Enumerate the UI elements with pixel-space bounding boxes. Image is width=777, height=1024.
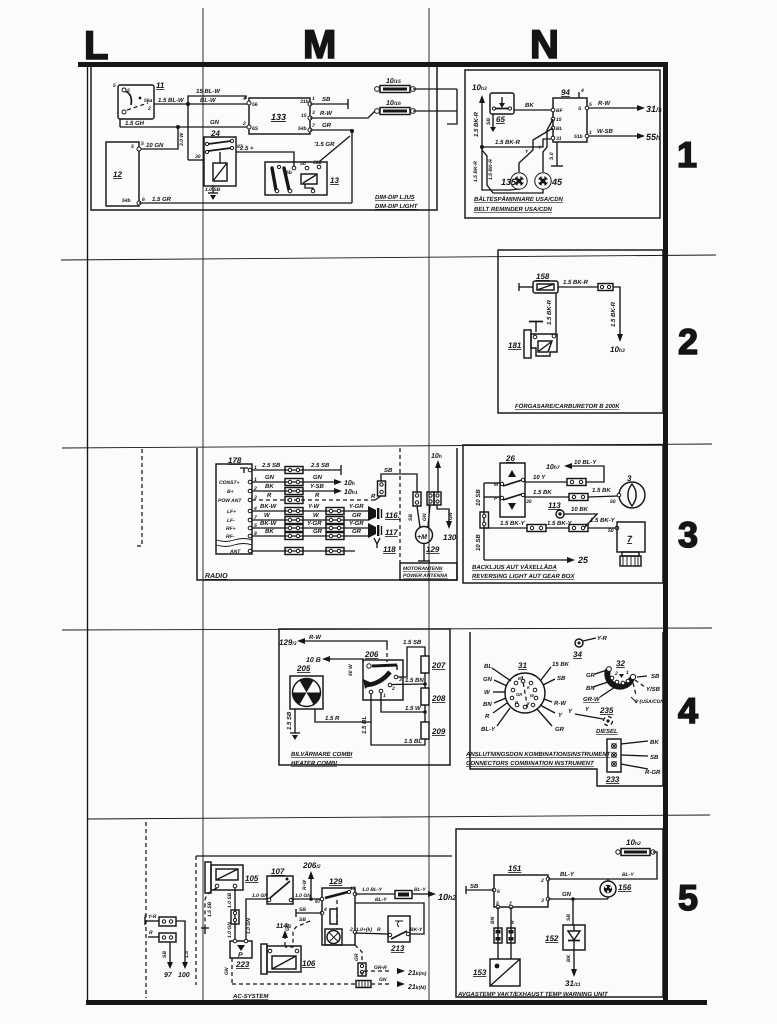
row 2.5 SB xyxy=(252,469,341,471)
svg-text:SB: SB xyxy=(299,907,306,913)
svg-text:7: 7 xyxy=(509,901,512,907)
svg-text:BL: BL xyxy=(556,126,563,132)
svg-text:15 BL-W: 15 BL-W xyxy=(196,88,221,95)
svg-text:SB: SB xyxy=(299,917,306,923)
svg-text:15: 15 xyxy=(350,886,356,892)
resistor 207 xyxy=(421,656,429,673)
svg-text:GR: GR xyxy=(352,528,362,535)
row LF- xyxy=(252,519,368,521)
svg-text:1.5 BK: 1.5 BK xyxy=(592,487,611,494)
wire down to 181 xyxy=(555,293,557,333)
svg-text:L: L xyxy=(84,24,108,68)
svg-text:GN: GN xyxy=(379,977,387,983)
svg-text:21k(M): 21k(M) xyxy=(407,984,426,991)
svg-text:105: 105 xyxy=(245,874,259,883)
svg-text:CONNECTORS COMBINATION INSTR: CONNECTORS COMBINATION INSTRUMENT xyxy=(466,760,595,767)
svg-text:R-W: R-W xyxy=(302,879,308,890)
svg-text:50 W: 50 W xyxy=(348,663,354,676)
arrow 206/2 xyxy=(310,879,312,899)
wire 1.0 BL-Y fuse 10h2 xyxy=(355,893,395,895)
svg-text:6: 6 xyxy=(142,197,145,203)
svg-text:AVGASTEMP VAKT/EXHAUST TEMP: AVGASTEMP VAKT/EXHAUST TEMP WARNING UNIT xyxy=(457,991,609,998)
svg-text:P (USA/CDN: P (USA/CDN xyxy=(635,699,664,705)
warning lamp 156 xyxy=(600,879,632,899)
svg-text:R: R xyxy=(377,927,381,933)
svg-text:SB: SB xyxy=(557,675,566,682)
svg-text:BILVÄRMARE COMBI: BILVÄRMARE COMBI xyxy=(291,750,353,758)
svg-text:B: B xyxy=(518,676,521,681)
relay 129 xyxy=(315,877,357,945)
svg-text:GR: GR xyxy=(555,726,565,733)
wire BL-Y down to 213 xyxy=(355,903,424,934)
svg-text:21k(m): 21k(m) xyxy=(407,970,427,977)
unit 13 xyxy=(265,160,339,195)
svg-text:1.5 BN: 1.5 BN xyxy=(405,677,424,684)
svg-text:SB: SB xyxy=(566,914,572,921)
svg-text:CONST+: CONST+ xyxy=(219,480,240,486)
svg-text:W-SB: W-SB xyxy=(597,128,613,135)
svg-text:31: 31 xyxy=(556,136,562,142)
row divider 2/3 xyxy=(62,444,712,448)
junction xyxy=(480,145,484,149)
svg-text:2.5 SB: 2.5 SB xyxy=(261,462,281,469)
relay 24 xyxy=(195,129,243,186)
wire into relay xyxy=(188,159,204,161)
row 15 BK to lamp xyxy=(525,496,569,498)
svg-text:SB: SB xyxy=(651,673,660,680)
svg-text:56a: 56a xyxy=(144,98,153,104)
svg-text:GN: GN xyxy=(422,513,428,521)
svg-text:N: N xyxy=(530,23,559,67)
svg-text:1.5 BK-R: 1.5 BK-R xyxy=(488,159,494,180)
section box REVERSING LIGHT xyxy=(463,445,663,583)
svg-text:SB: SB xyxy=(486,118,492,125)
SEC1R xyxy=(465,70,662,218)
svg-text:153: 153 xyxy=(473,968,487,977)
wire 107 to 129 xyxy=(291,898,322,900)
fan ground xyxy=(294,709,296,733)
32 left wires xyxy=(595,670,607,674)
svg-text:10 SB: 10 SB xyxy=(475,489,482,506)
svg-text:R-GR: R-GR xyxy=(645,769,661,776)
svg-text:1.5 BL: 1.5 BL xyxy=(404,738,422,745)
connector 233 xyxy=(605,739,621,784)
wire GR xyxy=(310,129,352,131)
svg-text:BL-Y: BL-Y xyxy=(414,887,426,893)
wire 107 to 223 xyxy=(246,899,269,941)
svg-text:13: 13 xyxy=(330,176,339,185)
svg-text:R: R xyxy=(267,492,272,499)
svg-text:2: 2 xyxy=(349,927,353,933)
svg-text:Y-W: Y-W xyxy=(308,503,321,510)
svg-text:94: 94 xyxy=(561,88,570,97)
svg-text:30: 30 xyxy=(195,154,201,160)
margin dashes row3 xyxy=(134,449,142,546)
svg-text:235: 235 xyxy=(599,706,614,715)
svg-text:BK: BK xyxy=(265,528,274,535)
svg-text:129: 129 xyxy=(426,545,440,554)
svg-text:1.0 BL-Y: 1.0 BL-Y xyxy=(362,887,383,893)
SEC4R xyxy=(465,632,664,786)
svg-text:1.5 BK-R: 1.5 BK-R xyxy=(495,139,521,146)
svg-text:RADIO: RADIO xyxy=(205,573,228,580)
svg-text:50: 50 xyxy=(608,528,614,534)
svg-text:107: 107 xyxy=(271,867,285,876)
unit 12 xyxy=(106,142,139,206)
svg-text:213: 213 xyxy=(390,944,405,953)
svg-text:DIM-DIP LIGHT: DIM-DIP LIGHT xyxy=(375,203,419,210)
wire pin2 to junction xyxy=(392,683,425,686)
svg-text:1.0+(k): 1.0+(k) xyxy=(356,927,372,933)
svg-text:135: 135 xyxy=(501,177,517,187)
svg-text:1.5 SB: 1.5 SB xyxy=(207,901,213,917)
svg-text:GN: GN xyxy=(483,676,493,683)
svg-text:31: 31 xyxy=(518,661,527,670)
svg-text:54b: 54b xyxy=(298,126,307,132)
row LF+ xyxy=(252,510,368,512)
svg-text:6S: 6S xyxy=(252,126,259,132)
svg-text:SB: SB xyxy=(470,883,479,890)
wire 1.5 GR bottom xyxy=(139,202,352,204)
svg-text:133: 133 xyxy=(271,112,286,122)
svg-text:1.5 GR: 1.5 GR xyxy=(152,196,172,203)
connector right pair xyxy=(427,492,434,505)
svg-text:1: 1 xyxy=(383,693,386,699)
connector left xyxy=(413,492,421,506)
svg-text:1.5 SB: 1.5 SB xyxy=(403,639,422,646)
SEC2 xyxy=(498,250,663,413)
compressor 106 xyxy=(261,944,316,974)
SB dashed to 106 xyxy=(285,921,310,947)
svg-text:2: 2 xyxy=(242,121,246,127)
fuse 10/16 xyxy=(375,100,416,115)
svg-text:3: 3 xyxy=(312,110,315,116)
svg-text:GN: GN xyxy=(224,967,230,975)
svg-text:Y-GR: Y-GR xyxy=(349,503,364,510)
svg-text:1: 1 xyxy=(312,96,315,102)
svg-text:P: P xyxy=(238,952,243,959)
SEC3R xyxy=(463,445,663,583)
SB stub xyxy=(466,889,494,891)
svg-text:206: 206 xyxy=(364,650,379,659)
svg-text:2.5 SB: 2.5 SB xyxy=(310,462,330,469)
31 right fan-out wires xyxy=(541,667,551,680)
32 right wires xyxy=(637,676,647,677)
svg-text:R-W: R-W xyxy=(309,634,322,641)
section box BELT REMINDER xyxy=(465,70,660,218)
column divider L/M xyxy=(202,8,204,1000)
svg-text:100: 100 xyxy=(178,972,190,979)
fuse feed wire xyxy=(413,88,457,90)
left frame line xyxy=(87,67,89,1000)
svg-text:56b: 56b xyxy=(313,160,322,166)
row RF- xyxy=(252,535,368,537)
row BK Y-SB 10h1 xyxy=(252,490,334,492)
svg-text:158: 158 xyxy=(536,272,550,281)
svg-text:GN: GN xyxy=(448,512,454,520)
svg-text:Y/SB: Y/SB xyxy=(646,686,661,693)
svg-text:GR: GR xyxy=(586,672,596,679)
svg-text:DIESEL: DIESEL xyxy=(596,728,618,735)
svg-text:2: 2 xyxy=(147,106,151,112)
GR dashed branch xyxy=(355,945,362,963)
svg-text:1.5 W: 1.5 W xyxy=(405,705,422,712)
svg-text:1.5 R: 1.5 R xyxy=(325,715,340,722)
svg-text:GR: GR xyxy=(352,512,362,519)
fan wire 1.5 R xyxy=(315,709,371,722)
svg-text:5: 5 xyxy=(589,102,592,108)
svg-text:10 B: 10 B xyxy=(306,657,321,664)
svg-text:106: 106 xyxy=(302,959,316,968)
svg-text:87: 87 xyxy=(315,899,321,905)
column divider M/N xyxy=(428,8,430,1000)
svg-text:BL: BL xyxy=(484,663,492,670)
svg-text:1.5 BK-R: 1.5 BK-R xyxy=(473,111,480,137)
arrow 114/2 xyxy=(284,938,286,946)
svg-text:5b: 5b xyxy=(286,170,292,176)
svg-text:15 BK: 15 BK xyxy=(552,661,570,668)
svg-text:Y-SB: Y-SB xyxy=(310,483,325,490)
svg-text:10/16: 10/16 xyxy=(386,100,401,107)
svg-text:M: M xyxy=(303,23,336,67)
connector 31 xyxy=(505,661,545,713)
svg-text:118: 118 xyxy=(383,545,396,554)
svg-text:BK: BK xyxy=(265,483,274,490)
65 ground xyxy=(492,114,494,127)
svg-text:152: 152 xyxy=(545,934,559,943)
wire pin1 down xyxy=(381,693,425,712)
connector 32 xyxy=(607,659,636,687)
svg-text:SB: SB xyxy=(322,96,331,103)
sensor 153 xyxy=(473,959,520,986)
svg-text:1.5 BL-W: 1.5 BL-W xyxy=(158,97,185,104)
wire to 25 xyxy=(484,559,567,561)
svg-text:7: 7 xyxy=(312,123,315,129)
fan motor 205 xyxy=(290,664,323,709)
105 ground dashed xyxy=(205,888,217,928)
wire W-SB to 55h xyxy=(589,135,637,137)
svg-text:R: R xyxy=(515,700,518,705)
svg-text:151: 151 xyxy=(508,864,522,873)
svg-text:4: 4 xyxy=(678,690,698,731)
AC box left dashed xyxy=(195,856,197,985)
svg-text:BELT REMINDER USA/CDN: BELT REMINDER USA/CDN xyxy=(474,206,553,213)
svg-text:REVERSING LIGHT AUT GEAR BOX: REVERSING LIGHT AUT GEAR BOX xyxy=(472,573,575,580)
wire to 100 xyxy=(176,921,185,962)
item 34 xyxy=(575,639,583,647)
svg-text:1.0 GN: 1.0 GN xyxy=(252,893,268,899)
svg-text:50: 50 xyxy=(610,499,616,505)
svg-text:1.5 GH: 1.5 GH xyxy=(125,120,145,127)
node wire to 12 xyxy=(139,127,178,149)
svg-text:BL-Y: BL-Y xyxy=(560,871,575,878)
svg-text:MOTORANTENN: MOTORANTENN xyxy=(403,566,443,572)
AC box top xyxy=(196,855,452,857)
svg-text:BN: BN xyxy=(483,701,492,708)
wire down to 10h3 xyxy=(613,287,620,334)
node down xyxy=(351,130,353,203)
fuse 158 xyxy=(519,272,558,293)
svg-text:GN: GN xyxy=(313,474,323,481)
svg-text:5: 5 xyxy=(496,901,499,907)
wire to ground 31/11 xyxy=(573,950,575,969)
svg-text:1.0 GN: 1.0 GN xyxy=(295,893,311,899)
svg-text:45: 45 xyxy=(551,177,563,187)
svg-text:1: 1 xyxy=(626,670,629,676)
wire 1.5 SB top xyxy=(398,647,425,677)
svg-text:BK: BK xyxy=(525,102,534,109)
svg-text:3: 3 xyxy=(541,898,544,904)
motor feed wires xyxy=(417,506,420,527)
svg-text:156: 156 xyxy=(618,883,632,892)
branch to diode xyxy=(571,897,575,901)
svg-text:BK: BK xyxy=(566,954,572,962)
SEC5L xyxy=(144,856,456,1000)
svg-text:3.0 W: 3.0 W xyxy=(179,132,185,146)
svg-text:GR-W: GR-W xyxy=(583,696,601,703)
svg-text:RF+: RF+ xyxy=(226,526,236,532)
pressure switch 223 xyxy=(230,939,252,969)
svg-text:10 Y: 10 Y xyxy=(533,474,546,481)
svg-text:2: 2 xyxy=(391,686,395,692)
svg-text:R: R xyxy=(149,930,153,936)
svg-text:1.5 BK-R: 1.5 BK-R xyxy=(546,299,553,325)
svg-text:Y-GR: Y-GR xyxy=(307,520,322,527)
lamp 45 xyxy=(535,173,563,189)
unit 65 sensor xyxy=(490,93,514,124)
svg-text:BN: BN xyxy=(490,916,496,924)
svg-text:BL-Y: BL-Y xyxy=(481,726,496,733)
svg-text:+M: +M xyxy=(417,534,427,541)
svg-text:65: 65 xyxy=(496,115,505,124)
94 ground xyxy=(556,142,558,166)
svg-text:R-W: R-W xyxy=(320,110,333,117)
svg-text:Y-GR: Y-GR xyxy=(349,520,364,527)
svg-text:BK: BK xyxy=(650,739,659,746)
svg-text:POWER ANTENNA: POWER ANTENNA xyxy=(403,573,448,579)
switch 26 xyxy=(494,454,532,517)
svg-text:ANSLUTNINGSDON KOMBINATIONSIN: ANSLUTNINGSDON KOMBINATIONSINSTRUMENT xyxy=(465,751,612,758)
wire 2.5 relay to 13 xyxy=(236,152,294,166)
GN dashed bottom wire xyxy=(232,983,356,985)
svg-text:BL-W: BL-W xyxy=(200,97,217,104)
svg-text:1.5 BK-Y: 1.5 BK-Y xyxy=(590,517,616,524)
section box CONNECTORS xyxy=(470,632,663,786)
svg-text:4: 4 xyxy=(580,88,584,94)
speaker 117 xyxy=(368,523,398,538)
wire 15 BK-R xyxy=(482,139,551,147)
svg-text:15: 15 xyxy=(556,117,562,123)
svg-text:6: 6 xyxy=(497,889,500,895)
wire 15 BL-W xyxy=(188,96,246,104)
svg-text:1.0 GN: 1.0 GN xyxy=(246,918,252,934)
svg-text:1.5 BK-Y: 1.5 BK-Y xyxy=(500,520,526,527)
svg-text:1.0 SB: 1.0 SB xyxy=(227,892,233,908)
svg-text:10h7: 10h7 xyxy=(546,464,560,471)
arrow 10h up xyxy=(437,468,439,493)
svg-text:5: 5 xyxy=(678,877,698,918)
wire BK xyxy=(514,109,553,111)
svg-text:10 BL-Y: 10 BL-Y xyxy=(574,459,597,466)
fuse 10/15 xyxy=(375,78,416,93)
sensor wires BN R xyxy=(497,907,499,959)
svg-text:BK-W: BK-W xyxy=(260,520,278,527)
svg-text:3: 3 xyxy=(678,514,698,555)
svg-text:GN: GN xyxy=(562,891,572,898)
svg-text:R-W: R-W xyxy=(598,100,611,107)
svg-text:5 Y-R: 5 Y-R xyxy=(144,914,157,920)
section box RADIO xyxy=(197,448,457,580)
svg-text:10h1: 10h1 xyxy=(344,489,358,496)
svg-text:10 GN: 10 GN xyxy=(146,142,164,149)
solenoid 181 xyxy=(508,322,557,359)
top thick bar xyxy=(78,62,668,67)
svg-text:1: 1 xyxy=(589,130,592,136)
svg-text:24: 24 xyxy=(210,129,220,138)
svg-text:31b: 31b xyxy=(300,99,309,105)
svg-text:BL-Y: BL-Y xyxy=(622,872,634,878)
svg-text:208: 208 xyxy=(431,694,446,703)
svg-text:1.5 BK-R: 1.5 BK-R xyxy=(473,161,479,182)
row 1.5 BK-Y xyxy=(484,527,527,529)
wire R-W to 31s xyxy=(589,107,637,109)
svg-text:207: 207 xyxy=(431,661,446,670)
thermostat 213 xyxy=(388,916,410,953)
svg-text:30: 30 xyxy=(526,499,532,505)
lamp 135 xyxy=(501,173,527,189)
svg-text:FÖRGASARE/CARBURETOR B 200K: FÖRGASARE/CARBURETOR B 200K xyxy=(515,402,620,410)
wiper wire down xyxy=(371,694,425,745)
svg-text:GN: GN xyxy=(210,119,220,126)
radio unit 178 xyxy=(216,456,257,555)
svg-text:SB: SB xyxy=(384,467,393,474)
svg-text:2: 2 xyxy=(540,878,544,884)
bottom thick bar xyxy=(86,1000,707,1005)
svg-text:129: 129 xyxy=(329,877,343,886)
svg-text:RF-: RF- xyxy=(226,534,235,540)
svg-text:R: R xyxy=(371,493,376,500)
wire 1.5 GR diagonal xyxy=(320,136,350,161)
diode 152 xyxy=(545,925,585,950)
connector xyxy=(598,284,613,291)
svg-text:32: 32 xyxy=(616,659,625,668)
svg-text:'1.5 GR: '1.5 GR xyxy=(314,141,335,148)
switch 206 xyxy=(363,650,403,700)
105 wire down xyxy=(234,888,236,941)
svg-text:BK-Y: BK-Y xyxy=(410,927,423,933)
junction xyxy=(176,125,180,129)
svg-text:10 SB: 10 SB xyxy=(475,534,482,551)
svg-text:25: 25 xyxy=(577,555,589,565)
row divider 1/2 xyxy=(61,255,716,260)
svg-text:2: 2 xyxy=(614,671,618,677)
svg-text:SB: SB xyxy=(162,951,168,958)
relay 105 xyxy=(205,862,259,893)
svg-text:5: 5 xyxy=(113,83,116,89)
svg-text:116.: 116. xyxy=(385,511,400,520)
svg-text:1.0 GN: 1.0 GN xyxy=(227,922,233,938)
row ANT xyxy=(252,550,355,552)
svg-text:1.5 BK-R: 1.5 BK-R xyxy=(563,279,589,286)
233 wires xyxy=(621,741,648,744)
svg-text:DIM-DIP LJUS: DIM-DIP LJUS xyxy=(375,194,415,201)
svg-text:BACKLJUS AUT VÄXELLÅDA: BACKLJUS AUT VÄXELLÅDA xyxy=(472,563,557,571)
lamp 3 xyxy=(610,474,645,508)
svg-text:BÄLTESPÅMINNARE USA/CDN: BÄLTESPÅMINNARE USA/CDN xyxy=(474,195,564,203)
section box DIM-DIP xyxy=(91,67,437,210)
lamp sense wires xyxy=(519,128,553,172)
svg-text:BN: BN xyxy=(586,685,595,692)
